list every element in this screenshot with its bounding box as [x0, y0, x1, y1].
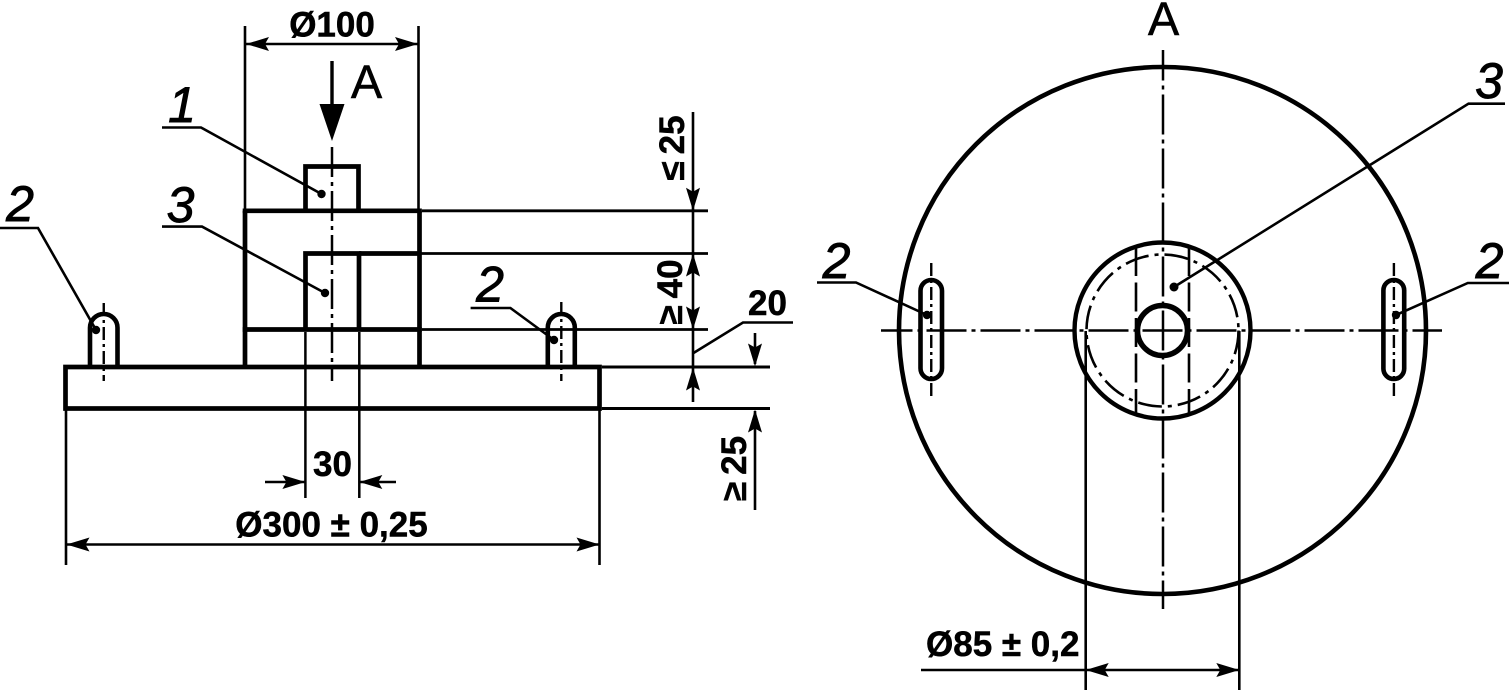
slot 2 right	[1383, 280, 1404, 379]
label 2 far left leader	[0, 228, 96, 330]
center line of boss	[331, 147, 334, 381]
base plate	[66, 367, 600, 409]
svg-text:≥ 40: ≥ 40	[651, 259, 690, 324]
ge25 arrow down	[748, 344, 762, 367]
label 1 leader	[162, 128, 322, 195]
ge25 arrow up	[748, 410, 762, 433]
dia85 arrow right	[1216, 663, 1239, 677]
slot 2 left center line	[930, 263, 932, 397]
svg-text:30: 30	[313, 445, 352, 484]
dia100 arrow left	[246, 37, 269, 51]
base top extension line	[602, 366, 770, 369]
svg-text:Ø300 ± 0,25: Ø300 ± 0,25	[235, 506, 427, 545]
30 dimension line right	[359, 481, 396, 484]
dia100 arrow right	[395, 37, 418, 51]
svg-text:≥ 25: ≥ 25	[715, 436, 754, 501]
dia85 extension line right	[1238, 331, 1241, 690]
dia300 arrow right	[577, 538, 600, 552]
svg-text:1: 1	[168, 77, 196, 133]
dia300 arrow left	[67, 538, 90, 552]
label 3 leader	[162, 227, 325, 293]
svg-text:20: 20	[748, 284, 787, 323]
middle circle	[1075, 243, 1251, 419]
label 3 right leader	[1174, 104, 1505, 287]
svg-text:Ø85 ± 0,2: Ø85 ± 0,2	[926, 625, 1079, 664]
30 arrow left	[282, 475, 305, 489]
svg-text:Ø100: Ø100	[289, 6, 375, 45]
30 extension line right	[358, 332, 361, 498]
svg-text:A: A	[1148, 0, 1180, 45]
label 2 rv-left dot	[923, 311, 931, 319]
dia100 extension line right	[417, 26, 420, 211]
slot bottom extension line	[422, 328, 708, 331]
boss top face	[243, 208, 422, 213]
20 leader	[694, 323, 794, 354]
boss left edge	[243, 211, 248, 367]
30 dimension line left	[265, 481, 305, 484]
svg-text:2: 2	[822, 233, 851, 289]
label 2 rv-left leader	[817, 283, 927, 316]
30 arrow right	[359, 475, 382, 489]
dia85 extension line left	[1084, 331, 1087, 690]
label 3 leader dot	[321, 289, 329, 297]
pin 2 left	[90, 314, 118, 367]
svg-text:A: A	[351, 55, 383, 108]
big circle	[899, 67, 1426, 594]
dia300 extension line left	[65, 410, 68, 565]
svg-text:2: 2	[475, 257, 504, 313]
slot top extension line	[359, 251, 420, 256]
hidden line right	[1188, 247, 1191, 415]
vertical center line	[1162, 50, 1165, 609]
ge40 arrow up	[686, 254, 700, 277]
dia300 extension line right	[598, 410, 601, 565]
bolt circle dash-dot	[1087, 255, 1239, 407]
label 2 mid dot	[550, 336, 558, 344]
dia100 extension line left	[244, 26, 247, 211]
ge25 arrow down shaft	[754, 333, 757, 364]
label 2 mid leader	[471, 308, 554, 340]
boss right edge	[417, 211, 422, 367]
view A arrow shaft	[330, 61, 333, 107]
slot 3 recess	[306, 254, 360, 330]
le25 arrow down	[686, 188, 700, 211]
label 1 leader dot	[317, 190, 325, 198]
small center circle	[1138, 306, 1188, 356]
base bottom extension line	[602, 407, 770, 410]
slot 2 left	[921, 280, 943, 379]
svg-text:≤ 25: ≤ 25	[653, 115, 692, 180]
label 2 rv-right dot	[1392, 311, 1400, 319]
svg-text:2: 2	[5, 176, 34, 232]
hidden line left	[1135, 247, 1138, 415]
30 extension line left	[304, 332, 307, 498]
dia85 arrow left	[1086, 663, 1109, 677]
slot top extension line thin	[420, 252, 709, 255]
slot 2 right center line	[1393, 263, 1395, 397]
dia100 dimension line	[246, 43, 418, 46]
ge40 arrow down	[686, 307, 700, 330]
boss top face extension line	[422, 209, 708, 212]
svg-text:3: 3	[167, 177, 195, 233]
slot bottom line	[243, 327, 422, 332]
block 1 on top	[306, 167, 359, 211]
ge25 shaft	[754, 411, 757, 510]
right dimension line column	[692, 112, 695, 402]
dia85 dimension line	[921, 669, 1239, 672]
label 2 far left dot	[92, 326, 100, 334]
view A arrowhead	[320, 104, 345, 141]
pin 2 right center line	[560, 302, 562, 381]
label 2 rv-right leader	[1396, 283, 1509, 315]
20 arrow up	[686, 368, 700, 391]
horizontal center line	[881, 329, 1442, 332]
pin 2 right	[548, 314, 575, 367]
dia300 dimension line	[67, 543, 600, 546]
label 3 right dot	[1170, 283, 1179, 292]
pin 2 left center line	[103, 303, 105, 381]
svg-text:2: 2	[1475, 233, 1504, 289]
svg-text:3: 3	[1475, 53, 1503, 109]
